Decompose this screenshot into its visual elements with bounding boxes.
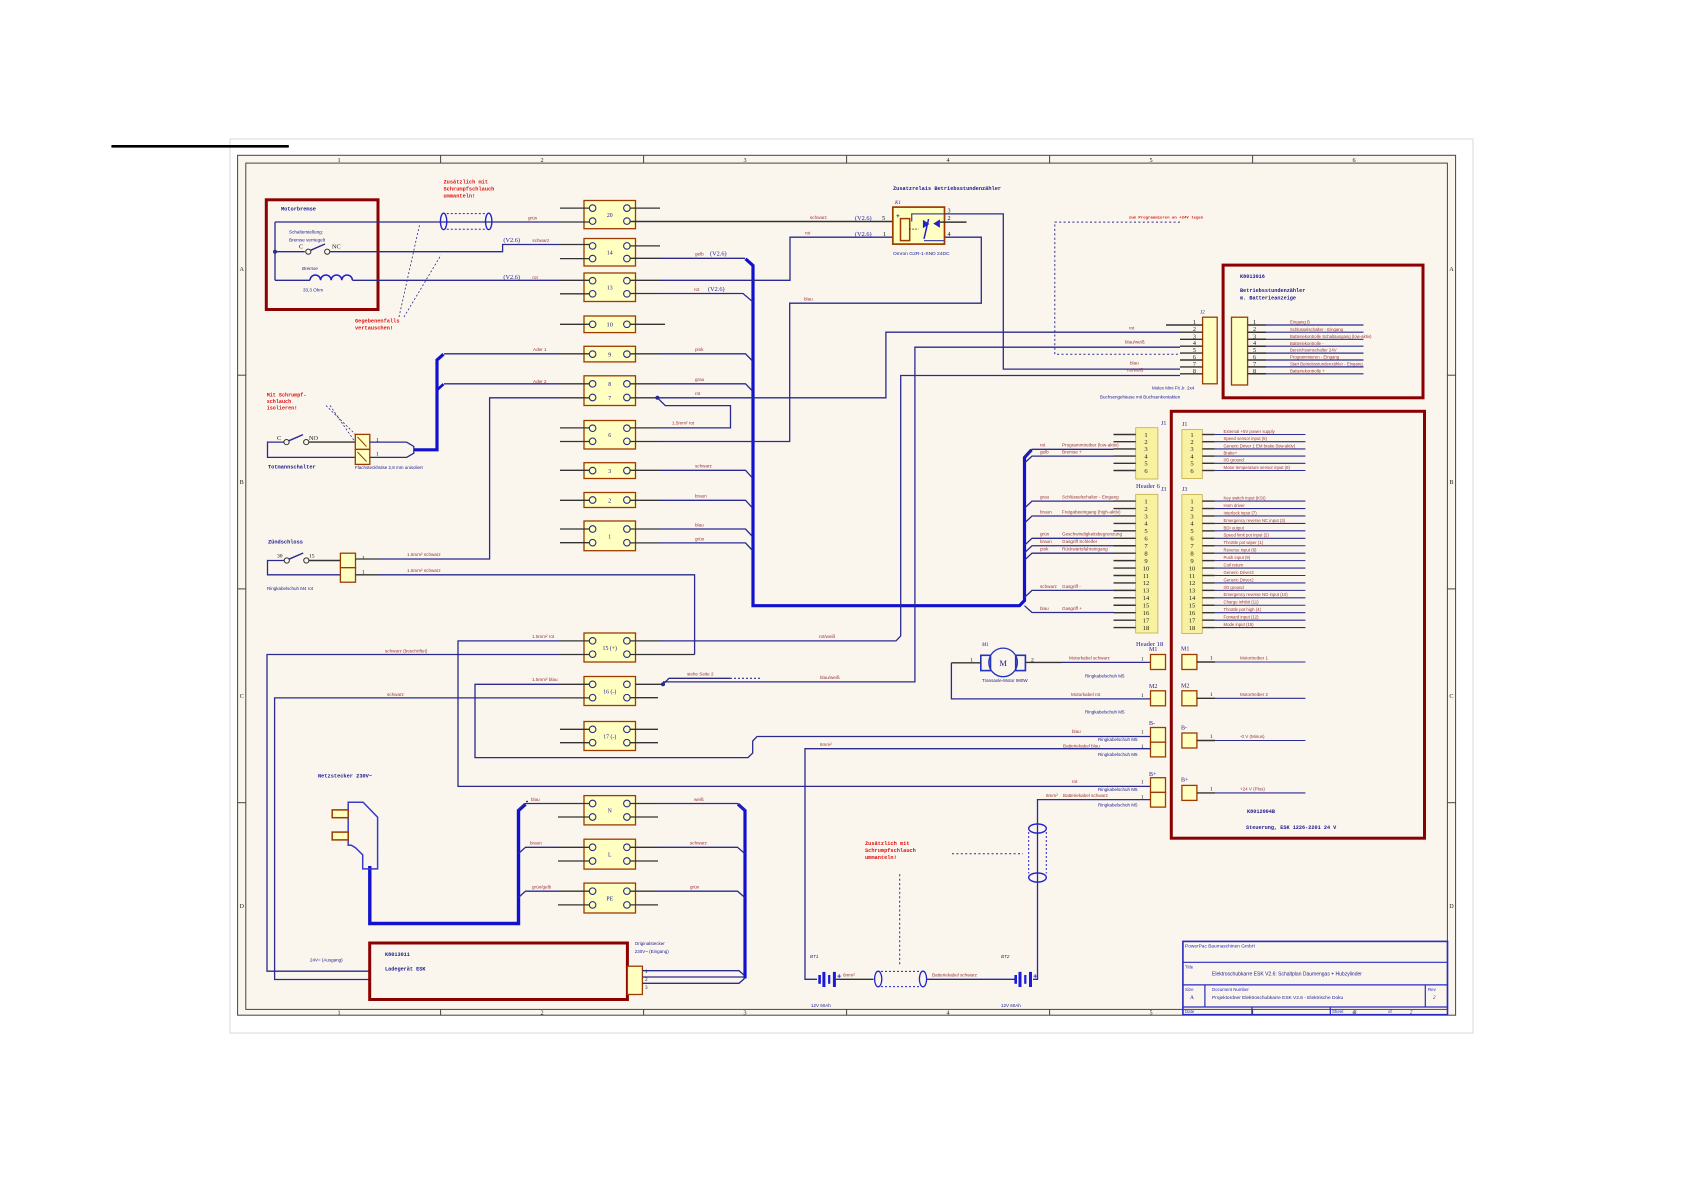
svg-text:Bremse verriegelt: Bremse verriegelt xyxy=(289,238,326,243)
svg-text:1: 1 xyxy=(1144,498,1147,505)
svg-text:schwarz: schwarz xyxy=(695,464,713,469)
svg-text:7: 7 xyxy=(608,396,611,402)
svg-text:1: 1 xyxy=(608,534,611,540)
connector block 15 plus xyxy=(584,633,636,662)
svg-text:1.5mm² schwarz: 1.5mm² schwarz xyxy=(407,568,441,573)
Totmann flat receptacle connector xyxy=(355,434,370,449)
svg-text:L: L xyxy=(608,853,612,859)
wire Ader 2 to block 8 xyxy=(444,383,560,385)
thick bus NLPE right xyxy=(738,804,745,978)
sheet background xyxy=(230,139,1473,1033)
svg-text:Zusatzrelais Betriebsstundenzä: Zusatzrelais Betriebsstundenzähler xyxy=(893,186,1001,192)
svg-text:J1: J1 xyxy=(1182,422,1187,428)
svg-text:D: D xyxy=(239,903,244,910)
svg-text:15: 15 xyxy=(1189,603,1196,610)
svg-text:16 (-): 16 (-) xyxy=(603,688,616,695)
svg-text:BT1: BT1 xyxy=(810,954,819,959)
svg-text:Zündschloss: Zündschloss xyxy=(268,540,303,546)
svg-text:C: C xyxy=(299,244,303,251)
Ladegeraet connector xyxy=(627,966,642,994)
svg-text:rot/weiß: rot/weiß xyxy=(819,634,836,639)
svg-text:1: 1 xyxy=(338,157,341,164)
svg-text:-0 V (Minus): -0 V (Minus) xyxy=(1240,734,1265,739)
connector block 6 xyxy=(584,421,636,450)
svg-text:5: 5 xyxy=(1150,157,1153,164)
svg-text:(V2.6): (V2.6) xyxy=(855,215,872,222)
svg-text:isolieren!: isolieren! xyxy=(267,406,298,412)
svg-text:12: 12 xyxy=(1189,580,1196,587)
svg-text:Charge inhibit (11): Charge inhibit (11) xyxy=(1224,600,1260,605)
svg-text:Interlock input (7): Interlock input (7) xyxy=(1224,510,1258,515)
svg-text:Schalterstellung:: Schalterstellung: xyxy=(289,230,323,235)
connector block 1 xyxy=(584,521,636,551)
svg-text:Mit Schrumpf-: Mit Schrumpf- xyxy=(267,393,307,399)
svg-text:17: 17 xyxy=(1143,617,1150,624)
svg-text:blau: blau xyxy=(804,296,813,301)
svg-text:(V2.6): (V2.6) xyxy=(503,274,520,281)
svg-text:Schlüsselschalter - Eingang: Schlüsselschalter - Eingang xyxy=(1062,495,1119,500)
svg-text:2: 2 xyxy=(645,977,648,983)
svg-text:2: 2 xyxy=(1253,326,1256,333)
svg-text:17: 17 xyxy=(1189,617,1196,624)
wires Ladegeraet to NLPE bus xyxy=(642,971,744,976)
svg-text:Batteriekontrolle -: Batteriekontrolle - xyxy=(1290,341,1324,346)
svg-text:braun: braun xyxy=(530,841,542,846)
connector block PE xyxy=(584,883,636,913)
svg-text:Flachsteckhülse 2,8 mm unisoli: Flachsteckhülse 2,8 mm unisoliert xyxy=(355,465,424,470)
thick bus Netzstecker left xyxy=(370,804,526,923)
svg-text:Originalstecker: Originalstecker xyxy=(635,941,666,946)
svg-text:Ringkabelschuh M5: Ringkabelschuh M5 xyxy=(1085,710,1125,715)
svg-text:18: 18 xyxy=(1143,625,1150,632)
svg-text:gelb: gelb xyxy=(1040,450,1049,455)
svg-text:14: 14 xyxy=(607,251,613,257)
svg-text:Bereichsumschalter 24V: Bereichsumschalter 24V xyxy=(1290,348,1337,353)
svg-text:blau/weiß: blau/weiß xyxy=(820,675,840,680)
svg-text:rot: rot xyxy=(1072,779,1078,784)
svg-text:12V 60Ah: 12V 60Ah xyxy=(811,1003,831,1008)
relay contact internals xyxy=(912,214,945,222)
svg-text:blau: blau xyxy=(695,522,704,527)
svg-text:2: 2 xyxy=(541,157,544,164)
wire 16 bottom feed schwarz from Ladegeraet xyxy=(275,698,560,980)
svg-text:PowerPac Baumaschinen GmbH: PowerPac Baumaschinen GmbH xyxy=(1185,944,1256,950)
svg-text:K8013011: K8013011 xyxy=(385,952,410,958)
svg-text:16: 16 xyxy=(1143,610,1150,617)
svg-text:Size: Size xyxy=(1185,987,1194,992)
svg-text:Gasgriff -: Gasgriff - xyxy=(1062,584,1081,589)
wire Totmann C loop xyxy=(268,442,356,457)
svg-text:1.5mm² rot: 1.5mm² rot xyxy=(532,634,555,639)
svg-text:schlauch: schlauch xyxy=(267,399,291,405)
wire motor pin1 to M2 terminal xyxy=(951,662,980,664)
svg-text:Zusätzlich mit: Zusätzlich mit xyxy=(865,841,910,847)
svg-text:2: 2 xyxy=(1190,506,1193,513)
svg-text:1: 1 xyxy=(1253,319,1256,326)
svg-text:10: 10 xyxy=(607,322,613,329)
svg-text:BDI output: BDI output xyxy=(1224,525,1245,530)
svg-text:Transaxle-Motor 980W: Transaxle-Motor 980W xyxy=(982,678,1028,683)
svg-text:Ringkabelschuh M4 rot: Ringkabelschuh M4 rot xyxy=(267,586,314,591)
svg-text:11: 11 xyxy=(1143,573,1149,580)
connector block 8 7 xyxy=(584,376,636,406)
svg-text:Motorkabel rot: Motorkabel rot xyxy=(1071,692,1101,697)
svg-text:16: 16 xyxy=(1189,610,1196,617)
svg-text:Ader 2: Ader 2 xyxy=(533,379,547,384)
svg-text:Speed sensor input (5): Speed sensor input (5) xyxy=(1224,436,1268,441)
svg-text:zum Programmieren an +24V lege: zum Programmieren an +24V legen xyxy=(1129,216,1204,221)
svg-text:vertauschen!: vertauschen! xyxy=(355,326,393,332)
wire B minus battery cable blau xyxy=(805,749,1151,980)
wire block1 gruen into bus xyxy=(660,543,753,551)
svg-text:Ringkabelschuh M5: Ringkabelschuh M5 xyxy=(1098,752,1138,757)
svg-text:siehe Seite 2: siehe Seite 2 xyxy=(687,672,714,677)
svg-text:Title: Title xyxy=(1185,965,1194,970)
svg-text:6mm²: 6mm² xyxy=(1046,793,1058,798)
svg-text:NC: NC xyxy=(332,244,341,251)
svg-text:Programmtreiber (low-aktiv): Programmtreiber (low-aktiv) xyxy=(1062,443,1119,448)
connector block 3 xyxy=(584,463,636,479)
connector block 20 xyxy=(584,201,636,229)
svg-text:m. Batterieanzeige: m. Batterieanzeige xyxy=(1240,296,1296,302)
wire block1 blau into bus xyxy=(660,529,753,537)
svg-text:Totmannschalter: Totmannschalter xyxy=(268,465,316,471)
svg-text:rot: rot xyxy=(532,275,538,280)
svg-text:M2: M2 xyxy=(1149,684,1157,690)
svg-text:3: 3 xyxy=(744,157,747,164)
svg-text:15: 15 xyxy=(1143,603,1150,610)
Betriebsstundenzaehler red box K8013016 xyxy=(1223,265,1423,398)
wire Zuendschloss lower to block15 bottom right xyxy=(356,574,381,576)
svg-text:braun: braun xyxy=(1040,509,1052,514)
svg-text:Schlüsselschalter - Eingang: Schlüsselschalter - Eingang xyxy=(1290,327,1344,332)
svg-text:Ladegerät ESK: Ladegerät ESK xyxy=(385,967,426,973)
svg-text:Emergency reverse NO input (10: Emergency reverse NO input (10) xyxy=(1224,592,1289,597)
plug prong 1 xyxy=(332,810,348,818)
wire B plus battery cable schwarz via shield xyxy=(1033,800,1151,980)
thick bus 753 harness vertical xyxy=(746,259,1032,606)
svg-text:K1: K1 xyxy=(894,201,901,206)
connector block L xyxy=(584,839,636,869)
svg-text:Gasgriff Schleifer: Gasgriff Schleifer xyxy=(1062,539,1098,544)
svg-text:Gegebenenfalls: Gegebenenfalls xyxy=(355,319,400,325)
Ladegeraet red box xyxy=(370,943,628,1000)
svg-text:Generic Driver3: Generic Driver3 xyxy=(1224,570,1255,575)
svg-text:Batteriekabel schwarz: Batteriekabel schwarz xyxy=(932,973,978,978)
svg-text:External +5V power supply: External +5V power supply xyxy=(1224,429,1276,434)
svg-text:2: 2 xyxy=(1144,439,1147,446)
svg-text:schwarz: schwarz xyxy=(690,841,708,846)
svg-text:grün: grün xyxy=(528,216,538,221)
svg-text:J1: J1 xyxy=(1161,421,1166,427)
svg-text:rot/weiß: rot/weiß xyxy=(1127,368,1144,373)
wire inductor to block 13 rot V2.6 xyxy=(352,279,560,281)
svg-text:6mm²: 6mm² xyxy=(820,742,832,747)
svg-text:Key switch input (KSI): Key switch input (KSI) xyxy=(1224,496,1267,501)
svg-text:2: 2 xyxy=(541,1009,544,1016)
svg-text:3: 3 xyxy=(608,468,611,475)
svg-text:1: 1 xyxy=(1141,780,1144,786)
svg-text:B-: B- xyxy=(1181,726,1187,732)
svg-text:1: 1 xyxy=(1141,657,1144,663)
svg-text:12V 60Ah: 12V 60Ah xyxy=(1001,1003,1021,1008)
wire Zuendschloss upper to block7 xyxy=(356,558,381,560)
svg-text:Date: Date xyxy=(1185,1009,1195,1014)
svg-text:12: 12 xyxy=(1143,580,1150,587)
bus tap blau to Header18 pin16 xyxy=(1025,606,1114,613)
wire Ader 1 to block 9 xyxy=(444,353,560,355)
K8013016 connector xyxy=(1232,317,1248,385)
svg-text:13: 13 xyxy=(1143,588,1150,595)
svg-text:Header 6: Header 6 xyxy=(1136,483,1161,490)
svg-text:5: 5 xyxy=(882,215,885,222)
svg-text:blau: blau xyxy=(1072,729,1081,734)
svg-text:(V2.6): (V2.6) xyxy=(708,286,725,293)
wire 15 plus feed from B plus rot xyxy=(458,641,1151,787)
controller red box Steuerung xyxy=(1171,411,1424,838)
wire block13 top to relay pin1 rot xyxy=(660,237,901,280)
wire Totmann NO to connector xyxy=(309,441,356,443)
svg-text:NO: NO xyxy=(309,435,318,442)
svg-text:Batteriekabel blau: Batteriekabel blau xyxy=(1063,744,1100,749)
svg-text:8: 8 xyxy=(608,382,611,388)
svg-text:schwarz: schwarz xyxy=(810,215,828,220)
svg-text:Buchsengehäuse mit Buchsenkont: Buchsengehäuse mit Buchsenkontakten xyxy=(1100,395,1181,400)
svg-text:Brake+: Brake+ xyxy=(1224,451,1238,456)
svg-text:8: 8 xyxy=(1193,368,1196,375)
svg-text:18: 18 xyxy=(1189,625,1196,632)
wire Zuendschloss 30 loop xyxy=(268,561,341,575)
svg-text:4: 4 xyxy=(948,231,951,238)
svg-text:blau: blau xyxy=(1040,606,1049,611)
wire block9 pink into bus xyxy=(660,354,753,361)
svg-text:BT2: BT2 xyxy=(1001,954,1010,959)
wire block8 grau into bus xyxy=(660,384,753,391)
svg-text:1: 1 xyxy=(1210,734,1213,740)
svg-text:I/O ground: I/O ground xyxy=(1224,585,1245,590)
svg-text:Programmieren - Eingang: Programmieren - Eingang xyxy=(1290,355,1340,360)
svg-text:4: 4 xyxy=(947,157,950,164)
svg-text:K8013016: K8013016 xyxy=(1240,274,1265,280)
annotation dotted pointer lines xyxy=(399,225,420,317)
svg-text:20: 20 xyxy=(607,213,613,219)
svg-text:13: 13 xyxy=(1189,588,1196,595)
svg-text:schwarz: schwarz xyxy=(532,238,550,243)
svg-text:3: 3 xyxy=(645,985,648,991)
black reference line top-left xyxy=(111,145,288,148)
svg-text:M: M xyxy=(999,658,1007,668)
svg-text:Reverse input (8): Reverse input (8) xyxy=(1224,548,1258,553)
svg-text:grün: grün xyxy=(1040,532,1050,537)
svg-text:15: 15 xyxy=(309,554,315,560)
vertical shield symbol on battery cable xyxy=(1029,824,1047,833)
svg-text:J3: J3 xyxy=(1161,487,1166,493)
wire Motorbremse internal vertical xyxy=(274,222,276,280)
svg-text:1: 1 xyxy=(376,438,379,444)
wire branch junction7 to block6 loop xyxy=(657,398,730,428)
svg-text:C: C xyxy=(1449,693,1453,700)
svg-text:Betriebsstundenzähler: Betriebsstundenzähler xyxy=(1240,288,1305,294)
svg-text:10: 10 xyxy=(1189,565,1196,572)
svg-text:J2: J2 xyxy=(1200,311,1205,316)
relay coil xyxy=(901,219,910,241)
svg-text:I/O ground: I/O ground xyxy=(1224,458,1245,463)
svg-text:A: A xyxy=(239,266,244,273)
relay pin3 wire to J2 pin7 xyxy=(945,214,1181,369)
svg-text:1: 1 xyxy=(1141,730,1144,736)
svg-text:(V2.6): (V2.6) xyxy=(710,251,727,258)
svg-text:+24 V (Plus): +24 V (Plus) xyxy=(1240,787,1265,792)
dotted annotation to horizontal cable xyxy=(899,874,901,965)
frame border inner xyxy=(246,163,1448,1009)
svg-text:rot: rot xyxy=(1040,443,1046,448)
svg-text:33,3 Ohm: 33,3 Ohm xyxy=(303,288,323,293)
svg-text:9: 9 xyxy=(608,352,611,359)
Zuendschloss connector xyxy=(340,553,355,568)
svg-text:15 (+): 15 (+) xyxy=(603,645,617,652)
switch C NC in Motorbremse xyxy=(275,251,305,253)
svg-text:2: 2 xyxy=(608,497,611,504)
svg-text:K8012004B: K8012004B xyxy=(1247,809,1275,815)
Netzstecker plug outline xyxy=(348,802,377,869)
svg-text:6mm²: 6mm² xyxy=(843,973,855,978)
svg-text:1: 1 xyxy=(645,969,648,975)
svg-text:A: A xyxy=(1190,995,1194,1001)
svg-text:10: 10 xyxy=(1143,565,1150,572)
horizontal shield symbol between batteries xyxy=(875,971,882,987)
wires N L PE right taps xyxy=(658,804,745,811)
svg-text:Ringkabelschuh M5: Ringkabelschuh M5 xyxy=(1098,787,1138,792)
svg-text:ummanteln!: ummanteln! xyxy=(865,855,897,861)
svg-text:blau: blau xyxy=(1130,360,1139,365)
wire 16 top feed blau xyxy=(475,684,1151,757)
svg-text:+: + xyxy=(896,213,900,220)
frame zone ticks and labels xyxy=(440,155,442,163)
svg-text:Horn driver: Horn driver xyxy=(1224,503,1246,508)
svg-text:Ringkabelschuh M5: Ringkabelschuh M5 xyxy=(1085,674,1125,679)
svg-text:A: A xyxy=(1449,266,1454,273)
svg-text:Netzstecker 230V~: Netzstecker 230V~ xyxy=(318,774,372,780)
svg-text:2: 2 xyxy=(1144,506,1147,513)
svg-text:Generic Driver 1 EM brake (low: Generic Driver 1 EM brake (low-aktiv) xyxy=(1224,443,1296,448)
svg-text:gelb: gelb xyxy=(695,252,704,257)
svg-text:Elektroschubkarre ESK V2.6: Sc: Elektroschubkarre ESK V2.6: Schaltplan D… xyxy=(1212,972,1362,978)
svg-text:Omron G2R-1-SND 24DC: Omron G2R-1-SND 24DC xyxy=(893,251,950,257)
svg-text:Geschwindigkeitsbegrenzung: Geschwindigkeitsbegrenzung xyxy=(1062,532,1122,537)
svg-text:Start Betriebsstundenzähler -: Start Betriebsstundenzähler - Eingang xyxy=(1290,362,1363,367)
wire block13 bottom rot V2.6 into bus xyxy=(660,294,753,303)
svg-text:Batteriekontrolle +: Batteriekontrolle + xyxy=(1290,368,1325,373)
svg-text:3: 3 xyxy=(948,208,951,215)
svg-text:braun: braun xyxy=(1040,539,1052,544)
svg-text:1: 1 xyxy=(1144,432,1147,439)
svg-text:(V2.6): (V2.6) xyxy=(503,237,520,244)
svg-text:1: 1 xyxy=(1210,656,1213,662)
svg-text:Generic Driver2: Generic Driver2 xyxy=(1224,577,1255,582)
svg-text:Schrumpfschlauch: Schrumpfschlauch xyxy=(865,848,916,854)
junction dot xyxy=(273,250,277,254)
svg-text:1: 1 xyxy=(1190,498,1193,505)
svg-text:1: 1 xyxy=(1210,692,1213,698)
svg-text:rot: rot xyxy=(805,230,811,235)
svg-text:13: 13 xyxy=(607,286,613,292)
svg-text:Motortreiber 1: Motortreiber 1 xyxy=(1240,656,1269,661)
wire 16 top right junction to J2 pin4 and siehe Seite 2 xyxy=(636,683,664,685)
svg-text:14: 14 xyxy=(1189,595,1196,602)
svg-text:Speed limit pot input (2): Speed limit pot input (2) xyxy=(1224,533,1270,538)
svg-text:1: 1 xyxy=(1210,787,1213,793)
svg-text:1.5mm² schwarz: 1.5mm² schwarz xyxy=(407,552,441,557)
svg-text:1: 1 xyxy=(376,451,379,457)
svg-text:pink: pink xyxy=(695,347,704,352)
svg-text:Throttle pot wiper (1): Throttle pot wiper (1) xyxy=(1224,540,1264,545)
svg-text:rot: rot xyxy=(695,391,701,396)
svg-text:grau: grau xyxy=(1040,495,1050,500)
connector block 9 xyxy=(584,346,636,362)
wire J2 pin4 blau-weiss from block16 xyxy=(663,347,1180,682)
wire block6 bottom to relay pin4 blau xyxy=(660,237,981,441)
dotted pointers to Totmann contacts xyxy=(326,406,357,437)
stub wires on blocks xyxy=(560,207,590,209)
thick bus cable from Totmann to Ader wires xyxy=(414,354,444,450)
title block xyxy=(1183,941,1448,1014)
svg-text:Forward input (12): Forward input (12) xyxy=(1224,615,1260,620)
svg-text:11: 11 xyxy=(1189,573,1195,580)
svg-text:Rev: Rev xyxy=(1428,987,1437,992)
dotted programming line to J2 pin5 xyxy=(1055,222,1180,354)
svg-text:Zusätzlich mit: Zusätzlich mit xyxy=(444,179,489,185)
svg-text:grün/gelb: grün/gelb xyxy=(532,885,552,890)
svg-text:Motorbremse: Motorbremse xyxy=(281,207,316,213)
svg-text:M1: M1 xyxy=(1149,647,1157,653)
connector block 13 xyxy=(584,273,636,302)
svg-text:Throttle pot high (4): Throttle pot high (4) xyxy=(1224,607,1262,612)
plug prong 2 xyxy=(332,832,348,840)
bus taps to Header6 xyxy=(1025,449,1114,457)
connector block 2 xyxy=(584,493,636,508)
svg-text:schwarz: schwarz xyxy=(387,692,405,697)
svg-text:230V~ (Eingang): 230V~ (Eingang) xyxy=(635,949,669,954)
svg-text:4: 4 xyxy=(947,1009,950,1016)
svg-text:rot: rot xyxy=(1129,326,1135,331)
svg-text:17 (-): 17 (-) xyxy=(603,733,616,740)
svg-text:30: 30 xyxy=(277,554,283,560)
svg-text:Mode input (15): Mode input (15) xyxy=(1224,622,1255,627)
svg-text:Ader 1: Ader 1 xyxy=(533,347,547,352)
svg-text:+: + xyxy=(1033,972,1038,981)
svg-text:2: 2 xyxy=(948,215,951,222)
svg-text:Steuerung, ESK 1226-2201 24 V: Steuerung, ESK 1226-2201 24 V xyxy=(1246,825,1337,831)
wire gelb V2.6 from block14 to bus xyxy=(660,257,745,259)
wire brake green to block 20 xyxy=(275,221,560,223)
wire 15 minus feed schwarz beschriftet from Ladegeraet xyxy=(267,655,560,972)
svg-text:6: 6 xyxy=(1353,157,1356,164)
svg-text:Eingang B: Eingang B xyxy=(1290,320,1310,325)
svg-text:Schrumpfschlauch: Schrumpfschlauch xyxy=(444,186,495,192)
svg-text:Sheet: Sheet xyxy=(1332,1009,1344,1014)
svg-text:Emergency reverse NC input (3): Emergency reverse NC input (3) xyxy=(1224,518,1286,523)
svg-text:1: 1 xyxy=(1141,693,1144,699)
svg-text:Projektordner Elektroschubkarr: Projektordner Elektroschubkarre ESK V2.6… xyxy=(1212,995,1344,1001)
svg-text:Bremse: Bremse xyxy=(302,266,318,271)
svg-text:(V2.6): (V2.6) xyxy=(855,231,872,238)
connector block 17 minus xyxy=(584,722,636,751)
svg-text:J3: J3 xyxy=(1182,487,1187,493)
connector block 14 xyxy=(584,239,636,267)
svg-text:Coil return: Coil return xyxy=(1224,562,1244,567)
wire NC to block 14 with V2.6 step xyxy=(330,245,560,252)
wires Totmann to thick gather xyxy=(370,441,407,443)
